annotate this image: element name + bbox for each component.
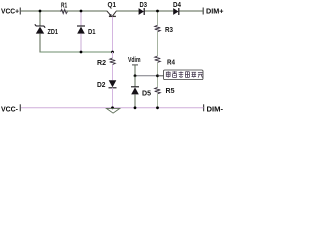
resistor R4 [155, 56, 161, 62]
svg-text:VCC-: VCC- [1, 105, 19, 114]
svg-text:D3: D3 [140, 2, 148, 9]
terminal tick DIM+ [202, 8, 204, 15]
svg-text:R1: R1 [61, 2, 67, 9]
wire clamp bottom rail y52 [40, 51, 113, 53]
terminal tick DIM- [203, 104, 205, 111]
svg-text:DIM-: DIM- [207, 105, 224, 114]
svg-text:R3: R3 [165, 27, 173, 34]
svg-text:R2: R2 [97, 60, 106, 67]
wire ZD1 top [39, 11, 41, 26]
wire top rail VCC+ to Q1 [21, 10, 107, 12]
svg-text:Q1: Q1 [108, 2, 117, 9]
resistor R3 [155, 25, 161, 31]
resistor R2 [110, 58, 116, 65]
svg-text:D5: D5 [142, 90, 151, 97]
junction top rail at D1 [80, 10, 83, 13]
terminal tick Vdim [132, 64, 138, 66]
ground [106, 108, 119, 113]
wire Vdim node down to D5 [134, 76, 136, 87]
wire bottom rail VCC- to DIM- [21, 107, 203, 109]
terminal tick VCC+ [19, 8, 21, 15]
svg-text:ZD1: ZD1 [48, 29, 59, 36]
diode D5 [131, 87, 139, 94]
junction Vdim at D5 [134, 74, 137, 77]
wire ZD1 bottom to corner [40, 34, 41, 52]
resistor R1 [61, 9, 68, 13]
transistor Q1 [107, 11, 116, 16]
transistor Q1 emitter arrow [109, 14, 112, 17]
box text dimming control unit glyphs [166, 71, 203, 77]
wire top rail Q1 to D3 [116, 10, 139, 12]
wire top rail D4 to DIM+ [179, 10, 203, 12]
junction y52 at Q1 base [111, 51, 114, 54]
wire R5 to bottom rail [157, 94, 159, 108]
junction Vdim at R4 R5 [156, 74, 159, 77]
wire D2 to bottom rail [112, 88, 114, 108]
terminal tick VCC- [19, 104, 21, 111]
wire D1 bottom [80, 34, 82, 52]
resistor R5 [155, 87, 161, 93]
wire D1 top [80, 11, 82, 26]
wire R4 to Vdim node [157, 62, 159, 87]
box dimming control unit [164, 70, 204, 80]
wire Vdim node horizontal [135, 75, 158, 77]
wire Vdim stub [134, 65, 136, 76]
svg-text:Vdim: Vdim [128, 57, 141, 64]
svg-text:R5: R5 [166, 88, 175, 95]
diode D2 [109, 80, 117, 87]
junction top rail at R3 [156, 10, 159, 13]
junction bottom rail at D5 [134, 106, 137, 109]
svg-text:R4: R4 [167, 59, 175, 66]
diode D1 [77, 27, 85, 34]
svg-text:D2: D2 [97, 82, 106, 89]
wire D5 to bottom rail [134, 94, 136, 107]
zener diode ZD1 [36, 27, 44, 34]
junction bottom rail at R5 [156, 106, 159, 109]
diode D3 [139, 8, 144, 15]
svg-text:VCC+: VCC+ [1, 6, 19, 15]
wire R2 to D2 [112, 65, 114, 81]
wire Vdim node to control box [158, 75, 164, 77]
wire node B to R2 [112, 52, 114, 58]
wire top rail D3 to D4 [144, 10, 173, 12]
svg-text:D4: D4 [173, 2, 181, 9]
diode D4 [173, 8, 178, 15]
wire R3 to R4 [157, 32, 159, 56]
wire Q1 base down to node B [112, 17, 114, 52]
junction top rail at ZD1 [39, 10, 42, 13]
wire R3 chain top [157, 11, 159, 25]
svg-text:DIM+: DIM+ [206, 6, 224, 15]
junction y52 at D1 [80, 51, 83, 54]
svg-text:D1: D1 [88, 29, 96, 36]
junction bottom rail at D2 [111, 106, 114, 109]
